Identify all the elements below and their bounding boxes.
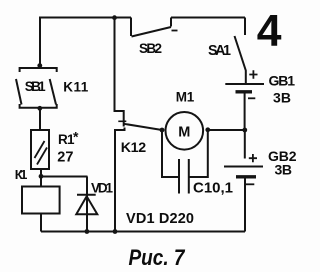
- svg-text:3В: 3В: [275, 161, 293, 177]
- svg-text:K11: K11: [63, 80, 88, 95]
- svg-text:M1: M1: [176, 89, 195, 104]
- svg-text:3В: 3В: [273, 90, 291, 106]
- svg-text:GB1: GB1: [269, 72, 296, 88]
- svg-text:SB1: SB1: [25, 79, 46, 94]
- svg-text:*: *: [73, 129, 79, 145]
- svg-text:SB2: SB2: [139, 41, 162, 56]
- svg-text:VD1 D220: VD1 D220: [126, 211, 194, 227]
- svg-text:SA1: SA1: [208, 43, 231, 59]
- svg-text:C10,1: C10,1: [193, 180, 233, 197]
- svg-text:Рис. 7: Рис. 7: [129, 245, 186, 270]
- svg-text:К1: К1: [15, 167, 27, 182]
- svg-text:27: 27: [57, 150, 73, 166]
- svg-text:M: M: [178, 125, 190, 141]
- svg-text:K12: K12: [121, 140, 147, 156]
- svg-text:VD1: VD1: [91, 180, 113, 195]
- svg-text:4: 4: [257, 7, 282, 56]
